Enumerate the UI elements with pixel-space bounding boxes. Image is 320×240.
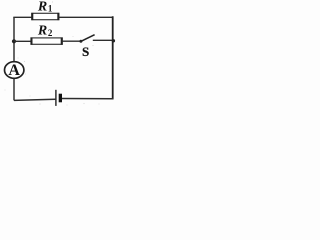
- wire R2 to switch contact: [62, 40, 79, 42]
- wire top-left rail (left vertical, upper part): [13, 17, 15, 62]
- wire bottom right (battery to right corner): [62, 98, 114, 100]
- switch S lever: [81, 35, 95, 42]
- wire top branch left (corner to R1): [13, 16, 32, 18]
- svg-text:R: R: [37, 24, 47, 39]
- resistor R1: [32, 13, 59, 20]
- svg-text:S: S: [82, 44, 89, 59]
- wire left rail lower part (ammeter to bottom corner): [13, 78, 15, 100]
- wire R2 branch left (junction to R2): [14, 40, 31, 42]
- switch S contact dot: [79, 40, 82, 43]
- svg-text:2: 2: [48, 28, 53, 38]
- battery negative plate (short thick): [59, 94, 62, 103]
- wire switch to right rail: [93, 39, 113, 41]
- node switch wire / right rail junction: [112, 39, 115, 42]
- svg-text:R: R: [37, 0, 47, 15]
- svg-text:1: 1: [48, 3, 53, 13]
- wire bottom left (corner to battery): [14, 99, 55, 100]
- ammeter A1 body: [5, 62, 24, 79]
- node junction (left rail / R2 branch): [12, 39, 16, 43]
- svg-text:A: A: [8, 62, 20, 79]
- battery positive plate (long thin): [55, 90, 57, 106]
- wire top branch right (R1 to right corner): [59, 16, 114, 18]
- wire right rail: [112, 16, 114, 99]
- resistor R2: [31, 38, 62, 45]
- scan speckles (paper noise): [5, 1, 100, 105]
